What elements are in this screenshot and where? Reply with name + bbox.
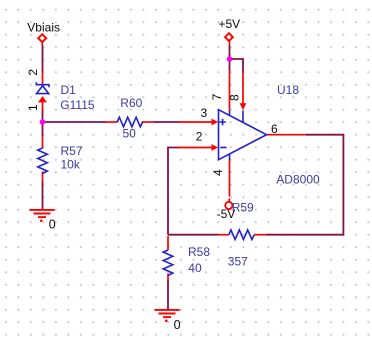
svg-text:6: 6 <box>271 122 278 136</box>
svg-text:AD8000: AD8000 <box>276 173 320 187</box>
svg-text:50: 50 <box>123 127 137 141</box>
svg-text:R57: R57 <box>61 144 83 158</box>
svg-text:+5V: +5V <box>219 17 241 31</box>
svg-text:D1: D1 <box>61 83 77 97</box>
svg-text:2: 2 <box>196 129 203 143</box>
svg-text:R60: R60 <box>120 96 142 110</box>
svg-text:0: 0 <box>174 318 181 332</box>
svg-text:3: 3 <box>201 106 208 120</box>
svg-text:4: 4 <box>211 169 225 176</box>
svg-text:G1115: G1115 <box>60 98 95 112</box>
svg-text:2: 2 <box>26 69 40 76</box>
svg-text:357: 357 <box>228 254 248 268</box>
svg-text:0: 0 <box>49 218 56 232</box>
svg-text:1: 1 <box>26 104 40 111</box>
svg-text:40: 40 <box>188 261 202 275</box>
svg-text:10k: 10k <box>61 158 81 172</box>
svg-text:R59: R59 <box>232 200 254 214</box>
svg-text:Vbiais: Vbiais <box>27 20 60 34</box>
svg-text:8: 8 <box>228 94 242 101</box>
svg-text:7: 7 <box>210 93 224 100</box>
svg-text:R58: R58 <box>188 245 210 259</box>
svg-text:U18: U18 <box>277 83 299 97</box>
